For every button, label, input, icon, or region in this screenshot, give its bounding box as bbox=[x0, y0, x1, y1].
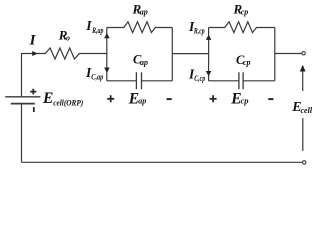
svg-text:ap: ap bbox=[140, 58, 148, 67]
svg-text:cp: cp bbox=[241, 96, 249, 106]
svg-text:C,cp: C,cp bbox=[194, 74, 205, 83]
svg-text:o: o bbox=[66, 33, 70, 42]
svg-text:cell(ORP): cell(ORP) bbox=[53, 98, 83, 107]
svg-text:E: E bbox=[42, 90, 53, 107]
svg-text:I: I bbox=[29, 32, 37, 48]
svg-text:R,cp: R,cp bbox=[193, 26, 205, 35]
svg-text:R,ap: R,ap bbox=[91, 26, 103, 35]
svg-text:ap: ap bbox=[140, 8, 148, 17]
svg-text:ap: ap bbox=[138, 96, 146, 106]
svg-text:cp: cp bbox=[241, 8, 249, 17]
svg-text:cp: cp bbox=[243, 58, 251, 67]
svg-text:cell: cell bbox=[301, 106, 313, 115]
svg-text:C,ap: C,ap bbox=[91, 73, 103, 82]
